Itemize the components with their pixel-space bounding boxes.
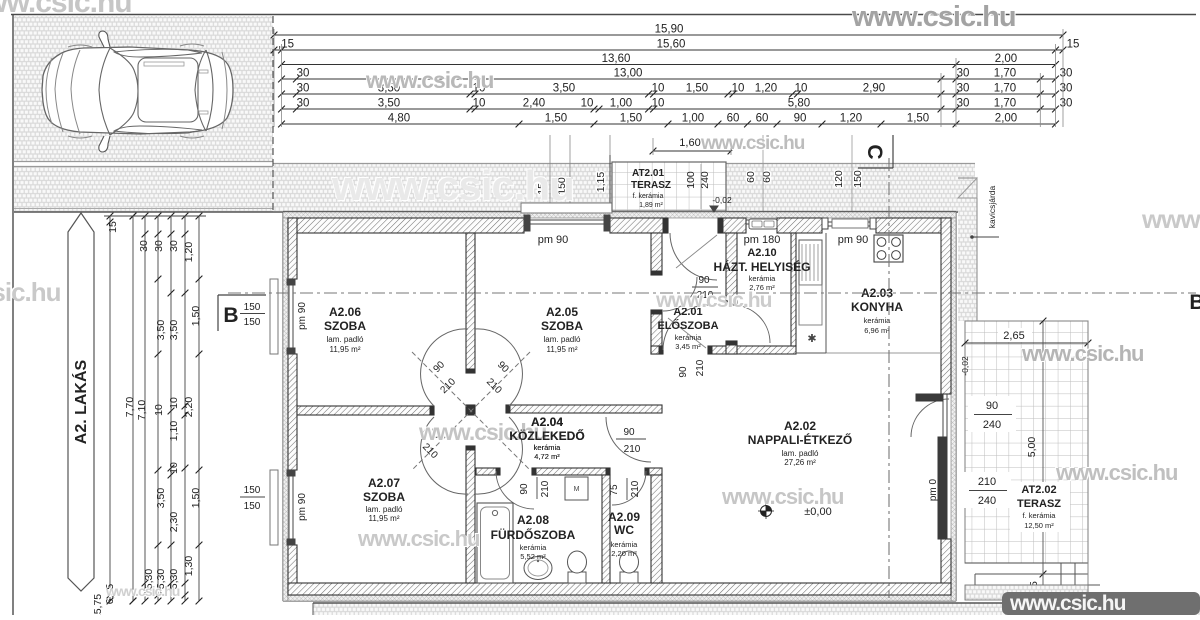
svg-text:pm 90: pm 90 [297,493,308,521]
svg-text:B: B [223,304,238,327]
svg-text:ELŐSZOBA: ELŐSZOBA [657,319,718,332]
svg-text:2,00: 2,00 [995,53,1017,65]
svg-text:A2.06: A2.06 [329,305,361,319]
svg-text:90: 90 [519,483,530,495]
svg-text:1,30: 1,30 [183,556,195,577]
svg-text:2,20 m²: 2,20 m² [611,549,637,558]
svg-text:A2.07: A2.07 [368,476,400,490]
svg-text:60: 60 [756,113,769,125]
svg-text:15: 15 [1067,39,1080,51]
svg-text:30: 30 [297,98,310,110]
svg-text:✱: ✱ [807,333,816,345]
svg-text:5,80: 5,80 [788,98,810,110]
svg-text:6,96 m²: 6,96 m² [864,326,890,335]
svg-text:60: 60 [727,113,740,125]
svg-text:pm 180: pm 180 [744,234,781,246]
svg-text:1,20: 1,20 [755,83,777,95]
svg-text:SZOBA: SZOBA [324,319,366,333]
svg-text:www.csic.hu: www.csic.hu [1141,204,1200,234]
svg-text:30: 30 [168,240,180,252]
svg-text:10: 10 [732,83,745,95]
svg-text:A2.10: A2.10 [747,247,776,259]
svg-text:2,30: 2,30 [168,512,180,533]
svg-text:30: 30 [1060,68,1073,80]
svg-text:kerámia: kerámia [534,443,562,452]
svg-text:210: 210 [540,480,551,497]
svg-text:30: 30 [1060,98,1073,110]
svg-text:f. kerámia: f. kerámia [633,193,664,200]
svg-text:A2.08: A2.08 [517,513,549,527]
svg-text:pm 0: pm 0 [928,478,939,501]
svg-text:pm 90: pm 90 [838,234,869,246]
svg-text:120: 120 [833,170,845,188]
svg-text:www.csic.hu: www.csic.hu [700,133,805,154]
svg-text:2,00: 2,00 [995,113,1017,125]
svg-text:FÜRDŐSZOBA: FÜRDŐSZOBA [491,527,576,542]
svg-text:30: 30 [297,68,310,80]
svg-text:1,70: 1,70 [994,98,1016,110]
svg-text:-0,02: -0,02 [960,356,970,376]
svg-text:10: 10 [652,98,665,110]
svg-text:5,52 m²: 5,52 m² [520,552,546,561]
svg-text:90: 90 [698,275,710,286]
svg-text:90: 90 [623,427,635,438]
svg-text:10: 10 [153,404,165,416]
svg-text:M: M [574,486,580,493]
svg-text:NAPPALI-ÉTKEZŐ: NAPPALI-ÉTKEZŐ [748,432,852,447]
svg-text:AT2.02: AT2.02 [1021,484,1056,496]
svg-text:15: 15 [107,221,119,233]
svg-text:10: 10 [168,397,180,409]
svg-text:240: 240 [983,419,1001,431]
svg-text:HÁZT. HELYISÉG: HÁZT. HELYISÉG [714,259,811,274]
svg-text:210: 210 [624,444,641,455]
svg-text:27,26 m²: 27,26 m² [784,458,816,467]
svg-text:SZOBA: SZOBA [541,319,583,333]
svg-text:150: 150 [244,485,261,496]
svg-text:www.csic.hu: www.csic.hu [365,67,493,93]
svg-text:12,50 m²: 12,50 m² [1024,521,1054,530]
svg-text:3,50: 3,50 [553,83,575,95]
svg-text:15,60: 15,60 [657,39,686,51]
svg-text:kerámia: kerámia [520,543,548,552]
svg-text:1,60: 1,60 [679,137,700,149]
svg-text:1,20: 1,20 [183,242,195,263]
svg-text:www.csic.hu: www.csic.hu [721,484,843,509]
svg-text:kerámia: kerámia [611,540,639,549]
svg-text:11,95 m²: 11,95 m² [369,514,400,523]
svg-text:30: 30 [138,240,150,252]
svg-text:lam. padló: lam. padló [544,335,581,344]
svg-text:2,90: 2,90 [863,83,885,95]
svg-text:90: 90 [678,366,689,378]
svg-text:210: 210 [695,359,706,376]
svg-text:10: 10 [168,462,180,474]
svg-text:-0,02: -0,02 [712,195,732,205]
svg-text:30: 30 [957,98,970,110]
svg-text:pm 90: pm 90 [297,302,308,330]
svg-text:1,50: 1,50 [545,113,567,125]
svg-text:kerámia: kerámia [675,333,703,342]
svg-text:kavicsjárda: kavicsjárda [987,185,997,228]
svg-text:60: 60 [745,171,757,183]
svg-text:1,00: 1,00 [682,113,704,125]
svg-text:www.csic.hu: www.csic.hu [655,289,772,312]
svg-text:30: 30 [1060,83,1073,95]
svg-text:150: 150 [244,302,261,313]
svg-text:1,20: 1,20 [840,113,862,125]
svg-text:,15: ,15 [278,39,294,51]
svg-text:1,50: 1,50 [190,306,202,327]
svg-text:90: 90 [986,400,998,412]
svg-text:13,60: 13,60 [602,53,631,65]
svg-text:www.csic.hu: www.csic.hu [0,0,132,19]
svg-text:2,40: 2,40 [523,98,545,110]
svg-text:KONYHA: KONYHA [851,300,903,314]
svg-text:3,50: 3,50 [168,320,180,341]
svg-text:240: 240 [978,495,996,507]
svg-text:www.csic.hu: www.csic.hu [1021,341,1143,366]
svg-text:10: 10 [652,83,665,95]
svg-text:B: B [1189,291,1200,314]
svg-text:www.csic.hu: www.csic.hu [331,162,574,209]
svg-text:7,70: 7,70 [124,397,136,418]
svg-text:A2.02: A2.02 [784,419,816,433]
svg-text:3,50: 3,50 [155,320,167,341]
svg-text:www.csic.hu: www.csic.hu [357,526,479,551]
svg-text:www.csic.hu: www.csic.hu [105,583,180,599]
svg-text:AT2.01: AT2.01 [632,168,664,179]
svg-text:lam. padló: lam. padló [782,449,819,458]
svg-text:210: 210 [630,480,641,497]
svg-text:11,95 m²: 11,95 m² [330,345,361,354]
svg-text:A2.05: A2.05 [546,305,578,319]
svg-text:1,89 m²: 1,89 m² [639,202,663,209]
svg-text:TERASZ: TERASZ [631,180,671,191]
svg-text:75: 75 [609,484,620,496]
svg-text:30: 30 [957,68,970,80]
svg-text:4,80: 4,80 [388,113,410,125]
svg-text:5,00: 5,00 [1026,437,1038,458]
svg-text:C: C [863,144,886,159]
svg-text:pm 90: pm 90 [538,234,569,246]
svg-text:4,72 m²: 4,72 m² [534,452,560,461]
svg-text:210: 210 [978,476,996,488]
svg-text:150: 150 [244,317,261,328]
svg-text:100: 100 [685,171,697,189]
svg-text:2,20: 2,20 [183,397,195,418]
svg-text:KÖZLEKEDŐ: KÖZLEKEDŐ [509,428,584,443]
svg-text:SZOBA: SZOBA [363,490,405,504]
svg-text:30: 30 [153,240,165,252]
svg-text:A2. LAKÁS: A2. LAKÁS [71,359,90,444]
svg-text:1,50: 1,50 [686,83,708,95]
svg-text:15,90: 15,90 [655,24,684,36]
svg-text:1,50: 1,50 [620,113,642,125]
svg-text:1,70: 1,70 [994,68,1016,80]
svg-text:lam. padló: lam. padló [327,335,364,344]
svg-text:www.csic.hu: www.csic.hu [851,1,1016,33]
svg-text:1,50: 1,50 [190,488,202,509]
svg-text:kerámia: kerámia [749,274,777,283]
svg-text:150: 150 [244,501,261,512]
svg-text:1,50: 1,50 [907,113,929,125]
svg-text:www.csic.hu: www.csic.hu [1055,460,1177,485]
svg-text:90: 90 [794,113,807,125]
svg-text:1,15: 1,15 [595,172,607,193]
svg-text:www.csic.hu: www.csic.hu [1009,592,1126,615]
svg-text:kerámia: kerámia [864,316,892,325]
svg-text:150: 150 [852,170,864,188]
svg-text:1,70: 1,70 [994,83,1016,95]
svg-text:3,50: 3,50 [378,98,400,110]
svg-text:A2.04: A2.04 [531,415,563,429]
svg-text:f. kerámia: f. kerámia [1023,511,1057,520]
svg-text:TERASZ: TERASZ [1017,498,1061,510]
svg-text:lam. padló: lam. padló [366,505,403,514]
svg-text:15,75: 15,75 [92,594,104,615]
svg-text:WC: WC [614,523,634,537]
svg-text:1,10: 1,10 [168,421,180,442]
svg-text:10: 10 [581,98,594,110]
svg-text:7,10: 7,10 [136,400,148,421]
svg-text:1,00: 1,00 [610,98,632,110]
svg-text:30: 30 [957,83,970,95]
svg-text:13,00: 13,00 [614,68,643,80]
svg-text:www.csic.hu: www.csic.hu [0,277,61,307]
svg-text:10: 10 [795,83,808,95]
svg-text:3,45 m²: 3,45 m² [675,342,701,351]
svg-text:30: 30 [297,83,310,95]
svg-text:10: 10 [473,98,486,110]
svg-text:3,50: 3,50 [155,488,167,509]
svg-text:11,95 m²: 11,95 m² [547,345,578,354]
svg-text:A2.09: A2.09 [608,510,640,524]
